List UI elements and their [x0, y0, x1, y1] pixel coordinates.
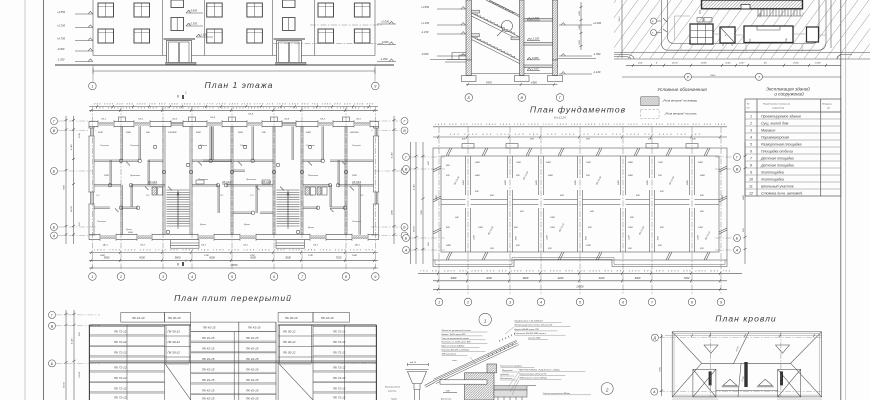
- svg-text:Кухня: Кухня: [308, 227, 315, 229]
- svg-text:ПК 42-15: ПК 42-15: [246, 378, 259, 382]
- svg-text:Крюки - 5х25 через 600: Крюки - 5х25 через 600: [442, 334, 467, 336]
- svg-text:Ветрозащитная плёнка „Изоспан: Ветрозащитная плёнка „Изоспан А": [515, 324, 553, 327]
- svg-text:ПК 72-12: ПК 72-12: [333, 376, 346, 380]
- svg-text:ПК 42-15: ПК 42-15: [202, 357, 215, 361]
- svg-text:54.78: 54.78: [70, 206, 73, 212]
- svg-text:1: 1: [91, 275, 93, 279]
- right elevation marks: [559, 21, 602, 74]
- door leaf marks: [115, 162, 354, 213]
- svg-text:ПК 72-12: ПК 72-12: [333, 366, 346, 370]
- svg-text:ПК 30-10: ПК 30-10: [285, 316, 298, 320]
- stair flight upper cut: [486, 0, 520, 17]
- text block B: [515, 319, 553, 339]
- svg-text:Кухня: Кухня: [244, 224, 251, 226]
- svg-text:ПК 72-12: ПК 72-12: [333, 396, 346, 400]
- svg-text:Спальня: Спальня: [100, 145, 110, 147]
- svg-text:3630: 3630: [238, 132, 244, 134]
- svg-text:В: В: [51, 324, 54, 328]
- svg-text:3600: 3600: [523, 276, 529, 280]
- svg-text:1б №1: 1б №1: [352, 180, 361, 184]
- svg-text:ПК 72-12: ПК 72-12: [114, 330, 127, 334]
- svg-text:+1.650: +1.650: [421, 5, 430, 9]
- svg-text:+1.100: +1.100: [531, 37, 540, 41]
- svg-text:28,80: 28,80: [700, 63, 707, 65]
- svg-text:200: 200: [547, 248, 552, 250]
- top slab boxes: [121, 313, 350, 323]
- svg-text:7630: 7630: [660, 366, 662, 372]
- svg-text:+2.000: +2.000: [381, 20, 390, 24]
- table row lines: [745, 119, 841, 189]
- svg-text:54.78: 54.78: [413, 226, 416, 232]
- svg-text:200: 200: [445, 175, 450, 177]
- apartment number labels: [148, 180, 361, 184]
- svg-text:-1.050: -1.050: [380, 57, 388, 61]
- svg-text:Кухня: Кухня: [200, 224, 207, 226]
- svg-text:„Роза ветров" на январь: „Роза ветров" на январь: [662, 99, 698, 103]
- narrow col right rows then stair opening: [278, 336, 313, 400]
- svg-text:4.180: 4.180: [71, 338, 74, 344]
- svg-text:Разворотная площадка: Разворотная площадка: [761, 143, 801, 147]
- svg-text:0.000: 0.000: [532, 56, 539, 60]
- facade bay joint lines: [163, 0, 315, 56]
- ceiling beam white band: [440, 380, 487, 384]
- svg-text:1: 1: [484, 318, 487, 323]
- svg-text:1260: 1260: [550, 227, 556, 229]
- svg-text:1: 1: [91, 85, 93, 89]
- svg-text:1600: 1600: [579, 39, 581, 45]
- svg-text:10150: 10150: [79, 371, 81, 378]
- svg-text:ОК-1: ОК-1: [313, 245, 319, 247]
- svg-text:8: 8: [750, 164, 752, 168]
- svg-text:1740: 1740: [308, 254, 314, 257]
- svg-text:С.У: С.У: [310, 195, 314, 197]
- svg-text:1: 1: [750, 115, 752, 119]
- svg-text:2400: 2400: [474, 174, 481, 177]
- far right small building: [807, 27, 819, 42]
- window sill hatch strips: [98, 122, 370, 239]
- section axis circles: [465, 94, 473, 102]
- svg-text:ОК-4: ОК-4: [248, 113, 254, 116]
- roof slope package: [433, 340, 518, 383]
- table rows text: [749, 115, 803, 196]
- svg-text:ПК 30-12: ПК 30-12: [168, 340, 181, 344]
- svg-text:-1.350: -1.350: [57, 58, 65, 62]
- roof axis dashed verticals: [711, 332, 781, 397]
- right wall hatched: [553, 0, 558, 60]
- svg-text:+2.200: +2.200: [593, 21, 602, 25]
- svg-text:3950: 3950: [306, 132, 312, 134]
- svg-text:В: В: [53, 129, 56, 133]
- svg-text:1280: 1280: [550, 217, 556, 219]
- svg-text:180 2460 1350 750 460 240 1550: 180 2460 1350 750 460 240 1550 2410 1570…: [96, 106, 372, 109]
- outer wall top: [89, 121, 379, 126]
- detail circle 2 on stair: [502, 21, 513, 32]
- svg-text:План кровли: План кровли: [715, 314, 776, 324]
- svg-text:1200: 1200: [547, 234, 549, 240]
- svg-text:Водоприемная: Водоприемная: [385, 386, 401, 389]
- left axis letter circles: [51, 118, 58, 240]
- bottom axis circles: [89, 273, 380, 281]
- svg-text:23,8: 23,8: [637, 63, 643, 65]
- room label texts: [96, 131, 364, 257]
- svg-text:Стоянка личн. автомоб.: Стоянка личн. автомоб.: [761, 192, 803, 196]
- svg-text:ОК-2: ОК-2: [138, 119, 144, 121]
- roof outer rect: [672, 332, 821, 397]
- svg-text:Жёлоб из кровельной стали: Жёлоб из кровельной стали: [441, 329, 472, 332]
- svg-text:200: 200: [529, 139, 534, 141]
- road island bottom-left: [614, 55, 634, 60]
- pilaster bumps top: [462, 144, 698, 149]
- wall hatch ticks outer band: [433, 148, 727, 260]
- svg-text:Условные обозначения: Условные обозначения: [657, 87, 707, 92]
- svg-text:ПК 72-12: ПК 72-12: [114, 396, 127, 400]
- svg-text:Х/В карнизная: Х/В карнизная: [441, 353, 457, 355]
- svg-text:ОК-1: ОК-1: [140, 245, 146, 247]
- table header texts: [747, 103, 833, 110]
- svg-text:А: А: [735, 249, 739, 253]
- svg-text:ОК-1: ОК-1: [101, 119, 107, 121]
- svg-text:ПК 30-10: ПК 30-10: [168, 316, 181, 320]
- svg-text:200: 200: [647, 139, 652, 141]
- svg-text:2190: 2190: [79, 132, 81, 139]
- svg-text:2400: 2400: [391, 209, 394, 216]
- stair flight hatch left: [167, 190, 190, 226]
- svg-text:ПК 42-15: ПК 42-15: [202, 347, 215, 351]
- svg-text:Бруски 40х40 через 700: Бруски 40х40 через 700: [515, 328, 540, 331]
- svg-text:С.У: С.У: [96, 195, 100, 197]
- roof bottom ticks: [672, 398, 822, 400]
- svg-text:-2.100: -2.100: [531, 67, 539, 71]
- svg-text:72,43: 72,43: [725, 62, 731, 65]
- svg-text:ПК 72-12: ПК 72-12: [333, 340, 346, 344]
- svg-text:2400: 2400: [617, 179, 620, 186]
- svg-text:2140: 2140: [97, 131, 104, 134]
- svg-text:ОК-2: ОК-2: [320, 119, 326, 121]
- svg-text:Свес из кровельной стали: Свес из кровельной стали: [442, 337, 470, 340]
- roof axis dash-dot horizontals: [659, 338, 822, 392]
- axis circle 9 top: [372, 82, 380, 90]
- hip diagonals left: [672, 332, 733, 397]
- svg-text:1600: 1600: [579, 10, 581, 16]
- vent triangle down left: [704, 345, 718, 353]
- site boundary bottom: [669, 0, 826, 50]
- svg-text:ПК 30-12: ПК 30-12: [283, 340, 296, 344]
- svg-text:Жёсткость: Жёсткость: [499, 378, 513, 380]
- site hatch field: [614, 0, 870, 59]
- svg-text:ОК-1: ОК-1: [356, 119, 362, 121]
- interior partition walls vertical: [121, 126, 360, 234]
- outer wall right: [374, 121, 379, 239]
- svg-text:ПК 42-15: ПК 42-15: [246, 367, 259, 371]
- svg-text:1280: 1280: [579, 24, 581, 30]
- transformer building: [720, 27, 735, 46]
- svg-text:2б №1: 2б №1: [261, 180, 271, 184]
- main slab block outline: [89, 325, 376, 400]
- svg-text:1540: 1540: [352, 254, 358, 257]
- svg-text:7200: 7200: [336, 255, 342, 259]
- svg-text:4380: 4380: [531, 80, 537, 84]
- narrow col left rows then stair opening: [165, 336, 191, 400]
- roof inner eave line: [674, 334, 820, 396]
- svg-text:4200: 4200: [139, 255, 145, 259]
- foundation axis dash-dot horizontals: [410, 157, 733, 250]
- detail circle 1: [479, 313, 491, 325]
- gutter funnel: [406, 370, 429, 400]
- svg-text:ПК 72-12: ПК 72-12: [333, 351, 346, 355]
- svg-text:ПК 42-15: ПК 42-15: [202, 389, 215, 393]
- svg-text:ПК 30-12: ПК 30-12: [283, 351, 296, 355]
- bottom dim chain row2: [451, 276, 690, 280]
- svg-text:ПК 42-15: ПК 42-15: [246, 389, 259, 393]
- svg-text:5: 5: [750, 143, 752, 147]
- svg-text:А: А: [404, 249, 408, 253]
- svg-text:„Роза ветров" на июль: „Роза ветров" на июль: [664, 112, 698, 116]
- svg-text:2400: 2400: [627, 161, 634, 164]
- svg-text:4200: 4200: [599, 276, 605, 280]
- svg-text:7500: 7500: [64, 184, 66, 190]
- svg-text:воронка: воронка: [388, 391, 397, 393]
- svg-text:Профнастил С 21-1000-0.6: Профнастил С 21-1000-0.6: [515, 319, 544, 322]
- middle cols rows: [191, 332, 276, 395]
- masonry wall hatched: [465, 373, 495, 400]
- svg-text:2400: 2400: [462, 179, 465, 186]
- parking comb strip: [757, 10, 801, 17]
- text block A: [441, 329, 472, 355]
- chimney right: [780, 371, 783, 385]
- svg-text:В: В: [521, 96, 524, 100]
- diagonal FL labels: [453, 170, 711, 240]
- svg-text:4200: 4200: [250, 255, 256, 259]
- OK window tags: [101, 113, 362, 247]
- svg-text:1902635: 1902635: [168, 132, 177, 134]
- svg-text:Спальня: Спальня: [97, 221, 107, 223]
- facade bottom dimension line: [93, 70, 375, 72]
- svg-text:1200: 1200: [629, 234, 631, 240]
- svg-text:4200: 4200: [486, 276, 492, 280]
- svg-text:ПК 72-12: ПК 72-12: [114, 376, 127, 380]
- site boundary sidewalk left: [662, 0, 675, 50]
- svg-text:ПК 72-12: ПК 72-12: [114, 351, 127, 355]
- vent triangle up right: [757, 379, 774, 387]
- text block left labels: [499, 365, 523, 380]
- svg-text:10: 10: [749, 178, 753, 182]
- svg-text:-1.100: -1.100: [593, 70, 601, 74]
- svg-text:ПК 42-15: ПК 42-15: [203, 325, 216, 329]
- svg-text:ПК 72-12: ПК 72-12: [114, 387, 127, 391]
- svg-text:Прихожая: Прихожая: [308, 175, 319, 177]
- svg-text:Костыль из -5х30 через 600: Костыль из -5х30 через 600: [442, 342, 472, 344]
- entrance door 1: [164, 39, 197, 65]
- facade plinth/ground line: [55, 64, 394, 66]
- svg-text:ПК 42-10: ПК 42-10: [321, 316, 334, 320]
- svg-text:В: В: [736, 168, 739, 172]
- svg-text:Кухня: Кухня: [126, 229, 133, 231]
- svg-text:дубовый: дубовый: [500, 373, 510, 376]
- stair landings: [472, 10, 520, 40]
- rotated dims along interior walls: [435, 179, 724, 240]
- interior level marks: [527, 16, 540, 71]
- top wall pier bumps: [119, 117, 350, 121]
- svg-text:План 1 этажа: План 1 этажа: [205, 80, 274, 90]
- svg-text:МВТ ROCKWOOL „Руф Баттс"- 150м: МВТ ROCKWOOL „Руф Баттс"- 150мм: [519, 369, 560, 372]
- svg-text:200: 200: [657, 175, 662, 177]
- section mark K top: [177, 91, 187, 100]
- svg-text:Школьный участок: Школьный участок: [761, 185, 794, 189]
- svg-text:Проектируемое здание: Проектируемое здание: [761, 115, 801, 119]
- floor slabs right rooms: [524, 19, 558, 68]
- gutter labels: [385, 386, 401, 400]
- chimney middle: [744, 362, 747, 387]
- footing pads: [462, 76, 563, 82]
- porch right: [276, 240, 305, 249]
- extra partitions: [110, 126, 339, 213]
- floor slab concrete: [494, 390, 527, 397]
- stair flight hatch right: [277, 190, 300, 226]
- svg-text:2б №1: 2б №1: [221, 180, 231, 184]
- slope insulation hatch ticks: [488, 344, 513, 357]
- slab plan left circles: [49, 311, 56, 367]
- svg-text:ПК 30-12: ПК 30-12: [168, 330, 181, 334]
- road band lines: [614, 53, 870, 60]
- right elevation marks: [377, 20, 396, 62]
- svg-text:и сооружений: и сооружений: [774, 90, 804, 96]
- svg-text:+3.650: +3.650: [189, 9, 198, 13]
- entrance porch steps left: [445, 53, 466, 63]
- svg-text:200: 200: [699, 248, 704, 250]
- legend box 2: [641, 109, 660, 118]
- windows top wall: [98, 120, 370, 127]
- below slab columns: [498, 397, 522, 400]
- svg-text:3950: 3950: [126, 132, 132, 134]
- chimney left: [709, 371, 712, 385]
- svg-text:3: 3: [750, 129, 752, 133]
- svg-text:3060: 3060: [451, 276, 457, 280]
- svg-text:Прихожая: Прихожая: [130, 175, 141, 177]
- eave extension to gutter: [425, 381, 436, 388]
- right axis letter circles: [401, 118, 408, 240]
- svg-text:12: 12: [749, 192, 753, 196]
- svg-text:А: А: [652, 390, 656, 394]
- svg-text:ПК 42-15: ПК 42-15: [246, 357, 259, 361]
- windows bottom wall: [100, 234, 368, 241]
- svg-text:2400: 2400: [574, 179, 577, 186]
- svg-text:7500: 7500: [421, 209, 423, 215]
- small sheds above: [697, 18, 712, 22]
- svg-text:Детская площадка: Детская площадка: [760, 157, 794, 161]
- foundation right dim chain: [744, 142, 747, 264]
- svg-text:4: 4: [191, 275, 193, 279]
- svg-text:ОК-4: ОК-4: [284, 118, 290, 121]
- svg-text:7200: 7200: [684, 276, 690, 280]
- svg-text:2: 2: [605, 387, 609, 392]
- svg-text:184,6: 184,6: [710, 74, 716, 77]
- legend box 1 (hatched): [641, 97, 660, 106]
- svg-text:ПК 42-15: ПК 42-15: [248, 325, 261, 329]
- svg-text:Сущ. жилой дом: Сущ. жилой дом: [761, 122, 789, 126]
- svg-text:54.78: 54.78: [63, 382, 66, 388]
- svg-text:+1.150: +1.150: [421, 21, 430, 25]
- section bottom dim line: [466, 84, 558, 86]
- svg-text:В: В: [405, 168, 408, 172]
- svg-text:ПК 42-10: ПК 42-10: [132, 316, 145, 320]
- cornice block hatched: [487, 364, 497, 373]
- slab axis dash-dot horizontals: [56, 315, 376, 364]
- svg-text:13,57: 13,57: [739, 63, 745, 65]
- svg-text:+1.150: +1.150: [199, 33, 208, 37]
- interior small dims: [445, 138, 706, 251]
- svg-text:1260: 1260: [478, 227, 484, 229]
- svg-text:2: 2: [749, 122, 752, 126]
- svg-text:Стена ограждения 900мм: Стена ограждения 900мм: [543, 392, 571, 395]
- svg-text:4200: 4200: [209, 255, 215, 259]
- svg-text:3000: 3000: [635, 276, 641, 280]
- svg-text:ДК-1: ДК-1: [102, 245, 109, 247]
- svg-text:0.000: 0.000: [382, 40, 389, 44]
- text block ROCKWOOL: [518, 369, 560, 380]
- sheet frame right outer line: [845, 0, 847, 400]
- svg-text:2400: 2400: [474, 161, 481, 164]
- svg-text:Спальня: Спальня: [352, 221, 362, 223]
- foundation left axis circles: [403, 154, 410, 254]
- svg-text:9: 9: [750, 171, 752, 175]
- svg-text:Магазин: Магазин: [761, 129, 775, 133]
- svg-text:Площадь,: Площадь,: [822, 103, 832, 106]
- svg-text:19,98: 19,98: [815, 63, 821, 65]
- svg-text:Парикмахерская: Парикмахерская: [761, 136, 789, 140]
- svg-text:-1.150: -1.150: [421, 30, 429, 34]
- right side dim chains: [393, 116, 396, 244]
- svg-text:Щит из досок δ=40мм: Щит из досок δ=40мм: [442, 345, 465, 348]
- sheet frame left outer line: [24, 0, 26, 400]
- existing house block grid: [690, 24, 713, 44]
- svg-text:+3.550: +3.550: [57, 10, 66, 14]
- svg-text:1500: 1500: [352, 175, 358, 177]
- svg-text:4.180: 4.180: [391, 152, 394, 158]
- svg-text:б.т 12,24: б.т 12,24: [554, 115, 566, 119]
- roof left circles: [651, 334, 658, 341]
- svg-text:4: 4: [750, 136, 752, 140]
- vent triangle up left: [722, 379, 739, 387]
- basement walls hatched: [466, 60, 472, 76]
- axis dash-dot horizontals: [58, 121, 400, 236]
- porch hip left: [693, 369, 716, 397]
- junction marker circles: [108, 145, 347, 233]
- svg-text:6: 6: [750, 150, 752, 154]
- window row 2: [98, 29, 114, 43]
- long building right: [744, 26, 793, 43]
- svg-text:200: 200: [489, 248, 494, 250]
- stair flight 2: [472, 37, 520, 64]
- svg-text:1: 1: [438, 301, 440, 305]
- roof left dim: [660, 334, 663, 396]
- interior foundation walls vertical: [466, 156, 695, 252]
- side wall window gaps: [88, 128, 379, 204]
- svg-text:+2.000: +2.000: [531, 16, 540, 20]
- svg-text:ПК 42-15: ПК 42-15: [246, 347, 259, 351]
- bottom dim chain row2: [104, 255, 342, 259]
- stair direction arrows: [177, 192, 289, 229]
- svg-text:2400: 2400: [504, 179, 507, 186]
- facade wall outline: [93, 0, 375, 56]
- svg-text:200: 200: [627, 248, 632, 250]
- svg-text:240: 240: [454, 216, 459, 219]
- slab vertical dividers: [165, 322, 314, 400]
- svg-text:990 1500 330 960 1350 750 860: 990 1500 330 960 1350 750 860 1460 1500 …: [94, 103, 374, 106]
- svg-text:2400: 2400: [445, 244, 452, 247]
- leader marks: [663, 10, 760, 32]
- middle wall hatched: [520, 0, 525, 76]
- sheet frame left inner line: [43, 0, 45, 400]
